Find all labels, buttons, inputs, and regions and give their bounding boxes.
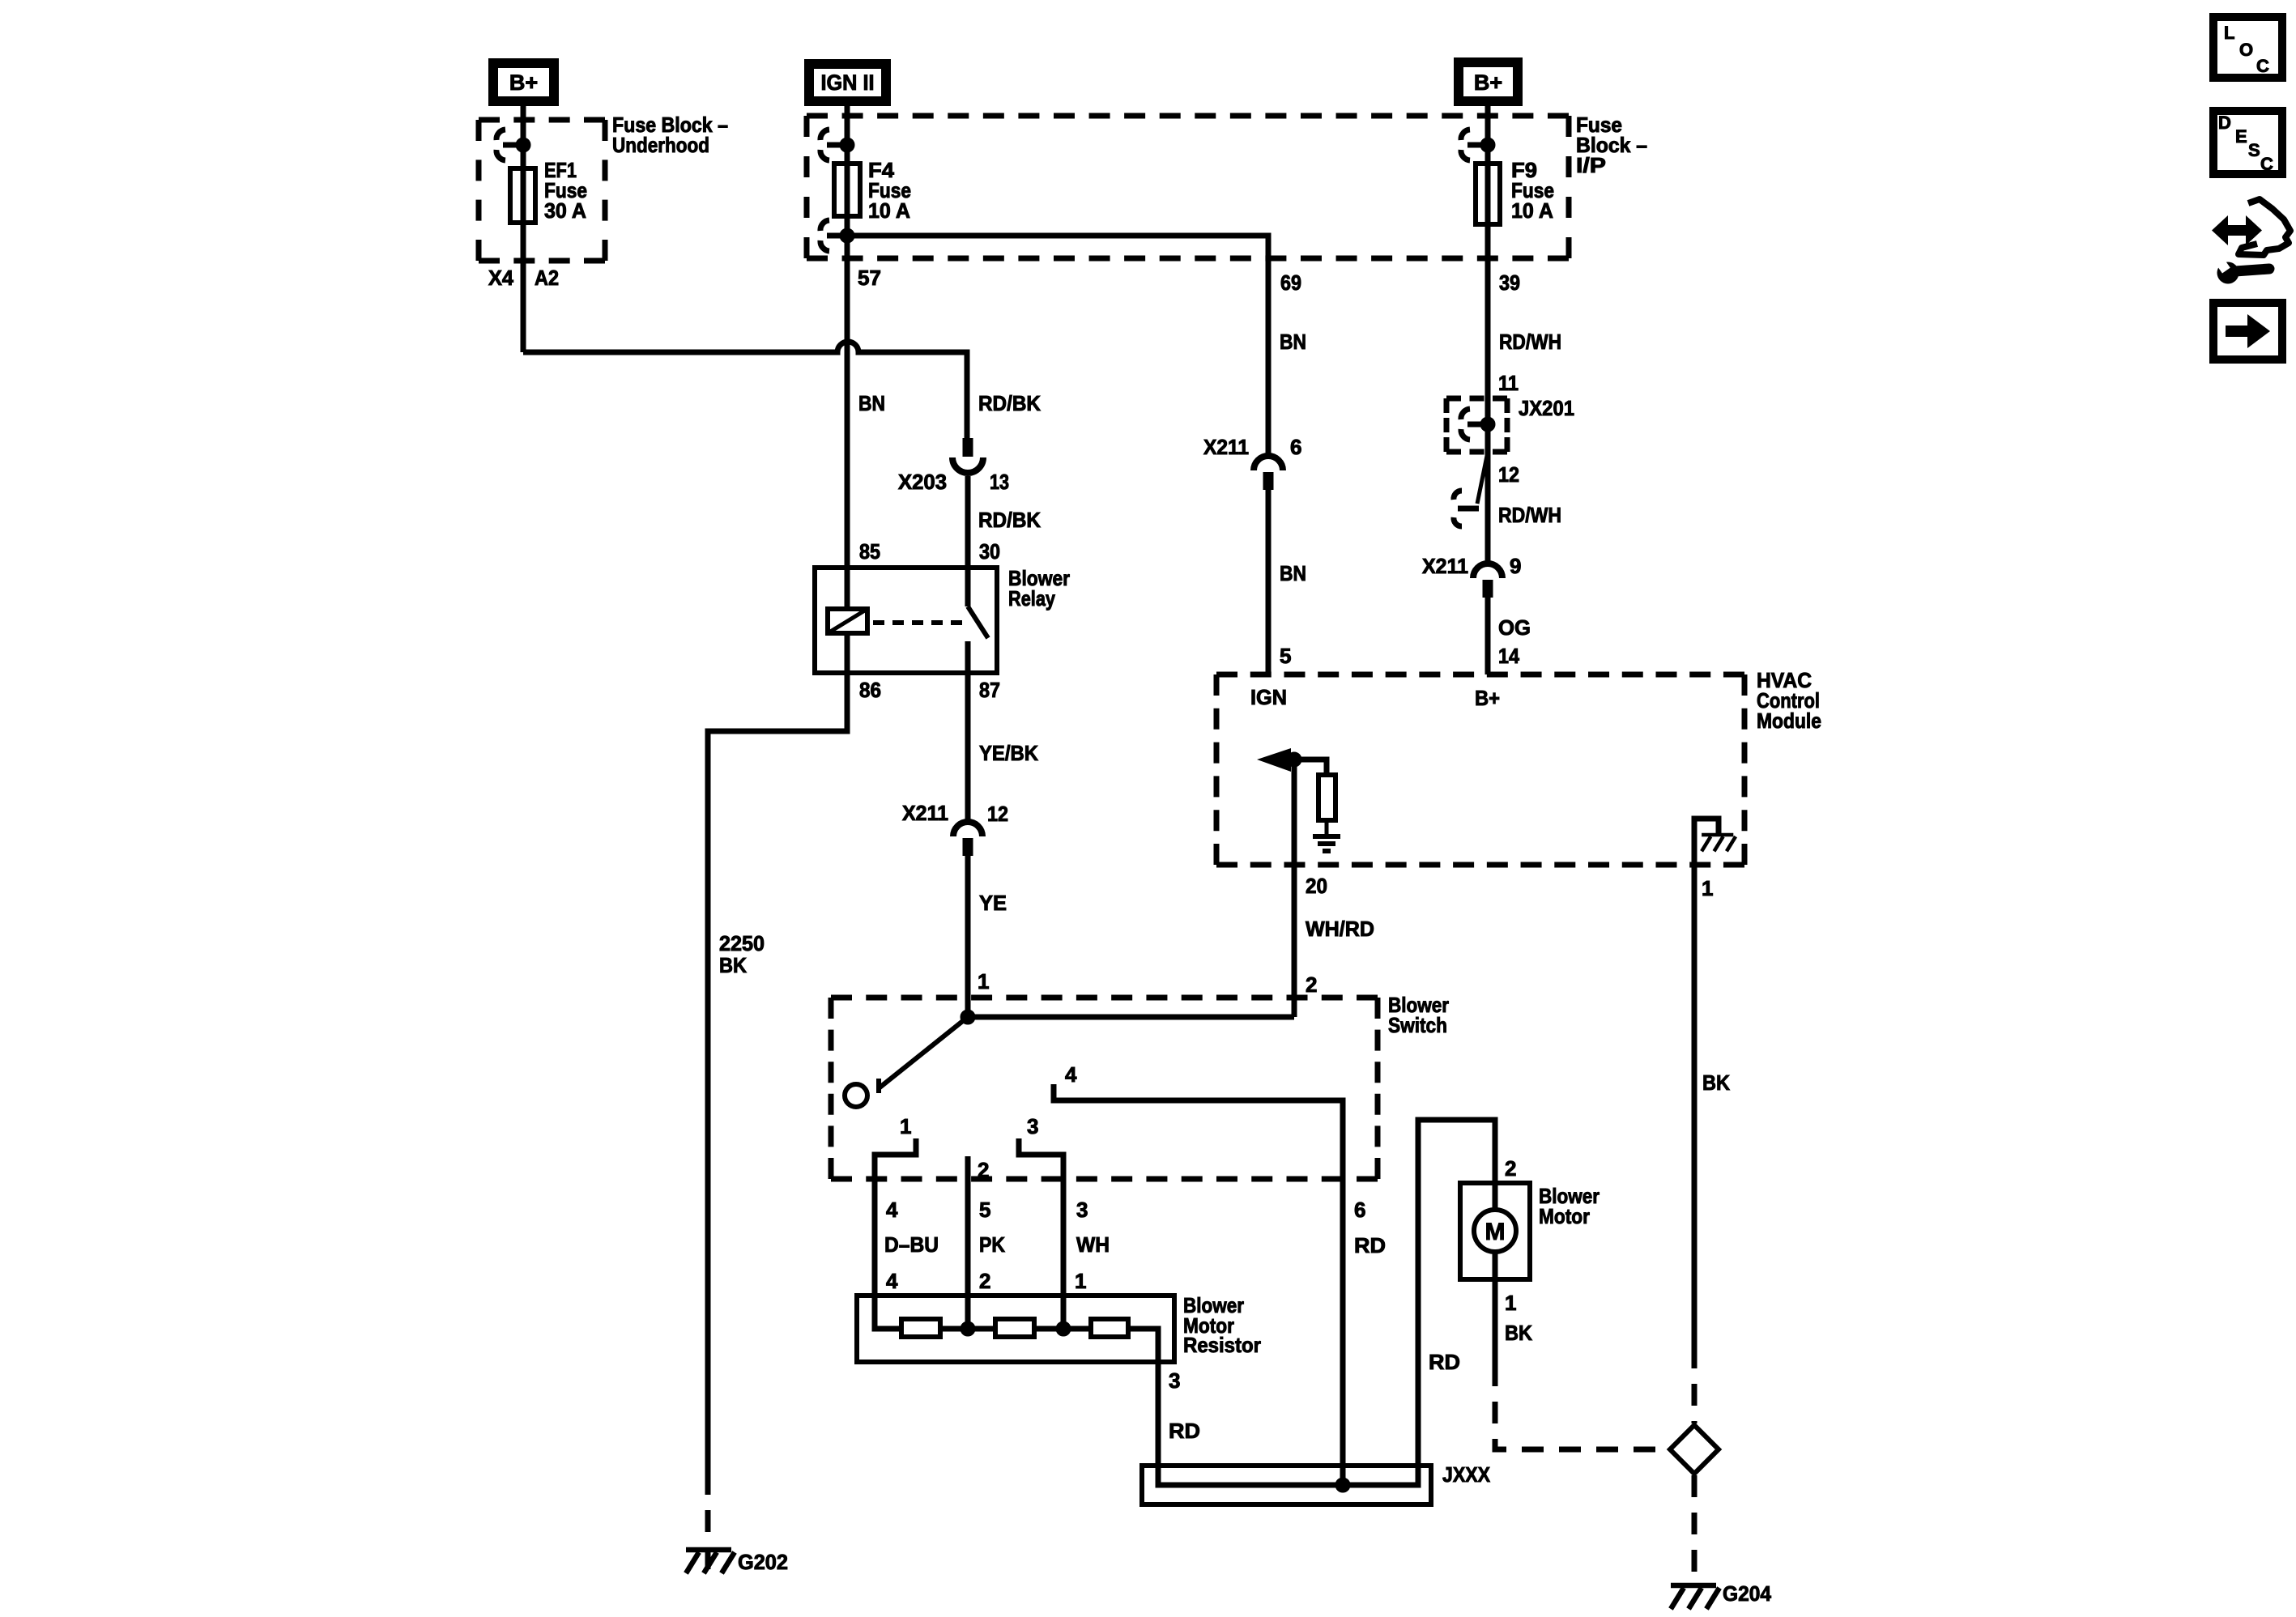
wire BN to HVAC pin 5: [1266, 489, 1272, 674]
svg-text:11: 11: [1498, 371, 1519, 395]
svg-text:3: 3: [1169, 1368, 1180, 1393]
svg-text:12: 12: [987, 802, 1008, 826]
blower switch dashed box: [831, 995, 1378, 1001]
icon LOC box: [2213, 17, 2282, 78]
junction dot on splice bus: [1335, 1478, 1350, 1492]
svg-text:5: 5: [1280, 644, 1291, 668]
svg-text:RD/BK: RD/BK: [978, 508, 1041, 532]
node B+ (I/P feed) terminal box: [1459, 62, 1518, 101]
icon forward arrow box: [2213, 303, 2282, 360]
clip at F4 fuse input: [827, 143, 847, 148]
connector X211 pin 9: [1473, 564, 1502, 578]
svg-text:C: C: [2260, 154, 2273, 174]
fuse EF1 30 A: [510, 168, 535, 223]
wire dashed BK HVAC to splice diamond: [1692, 1347, 1698, 1423]
ground G202 symbol: [686, 1547, 731, 1553]
connector X211 pin 6: [1254, 456, 1283, 470]
icon wrench: [2217, 262, 2239, 284]
wire X203 to relay pin 30: [965, 476, 971, 606]
svg-text:S: S: [2248, 140, 2260, 160]
svg-text:RD/BK: RD/BK: [978, 391, 1041, 415]
resistor element 3: [1091, 1319, 1128, 1337]
svg-text:4: 4: [886, 1198, 898, 1222]
switch wiper blade: [879, 1017, 968, 1088]
junction dot in JX201: [1480, 417, 1495, 432]
wire relay 86 to 2250 BK ground run: [708, 633, 847, 1473]
svg-text:Motor: Motor: [1539, 1204, 1590, 1228]
svg-text:69: 69: [1280, 270, 1301, 295]
svg-text:O: O: [2239, 40, 2253, 60]
wire B+ feed down through EF1 fuse: [521, 101, 526, 352]
svg-text:YE: YE: [979, 891, 1007, 915]
fuse F4 10 A: [834, 164, 860, 216]
svg-text:10 A: 10 A: [1511, 198, 1553, 223]
wire resistor internal rail: [875, 1296, 1158, 1362]
resistor internal pull-down: [1318, 775, 1335, 820]
clip at F9 fuse input: [1467, 143, 1488, 148]
HVAC control module dashed box: [1216, 672, 1744, 678]
svg-text:G204: G204: [1723, 1581, 1772, 1606]
relay K box: [815, 568, 997, 673]
svg-text:BN: BN: [1280, 330, 1306, 354]
wire switch pin 4 to RD feed: [1054, 1084, 1343, 1485]
svg-text:14: 14: [1498, 644, 1519, 668]
svg-text:L: L: [2224, 23, 2234, 43]
wire HVAC internal blower control with arrow: [1290, 760, 1327, 775]
wire switch pin 2 to resistor pin 2: [965, 1156, 971, 1329]
clip in JX201: [1467, 422, 1488, 428]
wire HVAC pin1 BK down: [1692, 865, 1698, 1347]
motor M circle: [1474, 1210, 1516, 1252]
svg-text:B+: B+: [1475, 686, 1500, 710]
fuse block underhood dashed box: [479, 117, 605, 123]
svg-text:Switch: Switch: [1388, 1013, 1447, 1037]
wire YE to blower switch: [965, 855, 971, 1017]
svg-text:6: 6: [1290, 435, 1301, 459]
wire switch pin1 to pin2 bus: [968, 1015, 1294, 1020]
svg-text:M: M: [1485, 1219, 1506, 1245]
wire dashed BK motor to splice diamond: [1495, 1364, 1668, 1449]
connector X203 pin 13: [963, 438, 973, 457]
wire branch from F4 to pin 69: [847, 236, 1268, 456]
svg-text:5: 5: [979, 1198, 990, 1222]
svg-text:X211: X211: [1422, 554, 1468, 578]
relay switch blade: [968, 606, 988, 638]
svg-text:G202: G202: [738, 1550, 788, 1574]
wire resistor pin 3 RD to splice bus: [1158, 1120, 1495, 1485]
svg-text:WH/RD: WH/RD: [1306, 917, 1374, 941]
connector X211 pin 12: [953, 822, 982, 836]
junction dot internal: [1287, 752, 1301, 767]
svg-text:PK: PK: [979, 1232, 1005, 1257]
wire motor pin 1 internal: [1493, 1252, 1498, 1279]
blower motor resistor box: [857, 1296, 1174, 1362]
wire IGN II feed down through F4 fuse: [845, 101, 850, 609]
svg-text:JX201: JX201: [1519, 396, 1574, 420]
svg-text:2: 2: [1505, 1156, 1516, 1181]
resistor element 1: [901, 1319, 940, 1337]
svg-text:BN: BN: [1280, 561, 1306, 585]
ground G204 symbol: [1671, 1583, 1716, 1589]
junction dot above fuse F9: [1480, 138, 1495, 152]
svg-text:1: 1: [978, 969, 989, 994]
wire B+ I/P feed down through F9 fuse: [1485, 101, 1491, 564]
wire resistor to internal ground: [1325, 820, 1329, 836]
node B+ (underhood feed) terminal box: [493, 63, 554, 101]
svg-text:4: 4: [1065, 1062, 1077, 1087]
svg-text:X211: X211: [1203, 435, 1249, 459]
relay coil: [828, 609, 867, 633]
svg-text:D–BU: D–BU: [884, 1232, 939, 1257]
wire switch pin 3 to resistor pin 1: [1019, 1138, 1063, 1329]
svg-text:RD: RD: [1429, 1350, 1460, 1374]
svg-text:Relay: Relay: [1008, 586, 1055, 611]
chassis ground symbol internal: [1702, 833, 1733, 837]
relay coil-contact dashed link: [873, 620, 962, 625]
wire motor pin 1 BK down: [1493, 1279, 1498, 1364]
svg-text:BK: BK: [719, 953, 747, 977]
svg-text:86: 86: [859, 678, 881, 702]
svg-text:E: E: [2235, 126, 2247, 147]
svg-text:1: 1: [1505, 1291, 1516, 1315]
svg-text:A2: A2: [535, 266, 559, 290]
clip at EF1 fuse input: [503, 143, 523, 148]
svg-text:JXXX: JXXX: [1442, 1462, 1491, 1487]
svg-text:RD: RD: [1354, 1233, 1386, 1257]
svg-text:IGN II: IGN II: [821, 70, 875, 95]
svg-text:3: 3: [1076, 1198, 1088, 1222]
svg-text:BK: BK: [1702, 1070, 1730, 1095]
svg-text:WH: WH: [1076, 1232, 1110, 1257]
junction dot resistor pin 1: [1056, 1321, 1071, 1336]
svg-text:X4: X4: [488, 266, 514, 290]
clip at F4 fuse output: [827, 233, 847, 239]
svg-text:2: 2: [978, 1158, 989, 1182]
icon DESC box: [2213, 111, 2282, 174]
fuse block I/P dashed box: [807, 113, 1569, 119]
wire HVAC internal ground pin 1 jog: [1694, 819, 1719, 865]
svg-text:Underhood: Underhood: [612, 133, 709, 157]
svg-text:RD/WH: RD/WH: [1498, 503, 1561, 527]
svg-text:6: 6: [1354, 1198, 1365, 1222]
junction dot above fuse F4: [840, 138, 854, 152]
resistor element 2: [995, 1319, 1034, 1337]
svg-text:20: 20: [1306, 874, 1327, 898]
svg-text:Resistor: Resistor: [1183, 1333, 1261, 1357]
svg-text:30: 30: [979, 539, 1000, 564]
ground symbol internal (earth bars): [1313, 834, 1340, 839]
fuse F9 10 A: [1476, 164, 1500, 224]
svg-text:1: 1: [1702, 876, 1713, 900]
svg-text:RD/WH: RD/WH: [1499, 330, 1561, 354]
svg-text:OG: OG: [1498, 615, 1531, 640]
svg-text:1: 1: [1075, 1269, 1086, 1293]
svg-text:39: 39: [1499, 270, 1520, 295]
junction dot resistor pin 2: [961, 1321, 975, 1336]
svg-text:B+: B+: [1474, 70, 1502, 95]
svg-text:X211: X211: [902, 801, 948, 825]
svg-text:C: C: [2256, 56, 2269, 76]
svg-text:4: 4: [886, 1269, 898, 1293]
svg-text:I/P: I/P: [1576, 153, 1606, 177]
arrowhead internal signal: [1257, 748, 1291, 772]
svg-text:85: 85: [859, 539, 880, 564]
icon diagnostic double arrow: [2223, 225, 2251, 236]
node IGN II feed terminal box: [809, 64, 886, 101]
wire HVAC pin20 WH/RD down to switch pin 2: [1292, 760, 1297, 1017]
svg-text:10 A: 10 A: [868, 198, 910, 223]
splice pack JXXX box: [1142, 1466, 1431, 1504]
svg-text:57: 57: [858, 266, 881, 290]
svg-text:X203: X203: [898, 470, 947, 494]
wire OG to HVAC pin 14: [1485, 597, 1491, 674]
clip stub below JX201: [1477, 452, 1488, 504]
switch rotor circle: [845, 1084, 867, 1107]
svg-text:12: 12: [1498, 462, 1519, 487]
svg-text:B+: B+: [509, 70, 538, 95]
wire switch pin 1 to resistor pin 4: [875, 1138, 916, 1296]
junction block JX201 dashed box: [1446, 396, 1507, 402]
junction dot above fuse EF1: [516, 138, 530, 152]
splice diamond: [1670, 1425, 1719, 1474]
svg-text:3: 3: [1027, 1114, 1038, 1138]
svg-text:RD: RD: [1169, 1419, 1200, 1443]
icon diagnostic hook shape: [2238, 199, 2290, 255]
svg-text:87: 87: [979, 678, 1000, 702]
svg-text:BK: BK: [1505, 1321, 1532, 1345]
svg-text:13: 13: [990, 470, 1009, 494]
wire motor pin 2 internal: [1493, 1183, 1498, 1210]
junction dot below fuse F4: [840, 228, 854, 243]
wire from EF1 fuse right with hop over BN wire to RD/BK drop: [523, 342, 967, 438]
svg-text:2250: 2250: [719, 931, 765, 955]
wire dashed splice to G204: [1692, 1475, 1698, 1579]
junction dot switch input: [961, 1010, 975, 1024]
svg-text:1: 1: [900, 1114, 911, 1138]
svg-text:D: D: [2218, 113, 2231, 133]
blower motor box: [1460, 1183, 1530, 1279]
wire relay 87 YE/BK to X211-12: [965, 673, 971, 822]
svg-text:9: 9: [1510, 554, 1521, 578]
wire relay pin 87 stub: [965, 641, 971, 673]
wire dashed BK to G202: [705, 1473, 711, 1575]
svg-text:2: 2: [979, 1269, 990, 1293]
svg-text:2: 2: [1306, 972, 1317, 997]
svg-text:30 A: 30 A: [544, 198, 586, 223]
svg-text:IGN: IGN: [1250, 685, 1287, 709]
svg-text:Module: Module: [1757, 709, 1821, 733]
svg-text:BN: BN: [858, 391, 885, 415]
svg-text:YE/BK: YE/BK: [979, 741, 1038, 765]
